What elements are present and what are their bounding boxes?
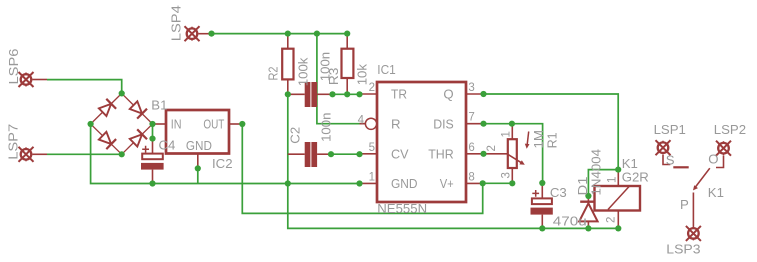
svg-text:2: 2 <box>486 145 498 151</box>
label LSP2 <box>714 122 746 137</box>
pin name GND timer <box>391 176 418 191</box>
junction THR pin <box>480 151 486 157</box>
svg-text:K1: K1 <box>708 185 724 200</box>
svg-text:470u: 470u <box>553 213 587 228</box>
capacitor C2 <box>288 142 331 167</box>
label C3 <box>550 185 567 200</box>
resistor R2 <box>282 34 293 95</box>
svg-text:R3: R3 <box>326 68 341 86</box>
label C2 <box>288 127 303 144</box>
svg-text:7: 7 <box>468 112 474 124</box>
svg-text:DIS: DIS <box>433 116 454 131</box>
svg-text:P: P <box>680 197 689 212</box>
value G2R <box>622 169 649 184</box>
pin name THR <box>428 146 454 161</box>
svg-text:100n: 100n <box>319 113 334 142</box>
wire LSP6 to bridge AC1 <box>47 80 122 94</box>
label LSP7 <box>5 124 20 160</box>
pin number K1-1 <box>606 177 618 183</box>
pin number K1-2 <box>606 217 618 223</box>
relay contact lever K1 <box>693 168 710 190</box>
label R3 <box>326 68 341 86</box>
capacitor C4 <box>141 139 164 184</box>
junction D1 anode <box>585 225 591 231</box>
svg-text:10k: 10k <box>354 64 369 86</box>
junction R2 top <box>285 30 291 36</box>
svg-text:100k: 100k <box>295 57 310 86</box>
pin number 3 <box>468 82 474 94</box>
junction C2 right <box>328 151 334 157</box>
svg-text:R2: R2 <box>266 67 281 81</box>
label K1 coil <box>622 156 638 171</box>
pin number 5 <box>369 142 375 154</box>
pin name V+ <box>440 176 454 191</box>
junction TR pin <box>356 91 362 97</box>
value 1M <box>531 130 546 149</box>
pin number 6 <box>468 142 474 154</box>
pin number R1-3 <box>501 172 513 178</box>
svg-text:6: 6 <box>468 142 474 154</box>
label IC1 <box>377 62 396 77</box>
timer IC1 NE555N <box>360 82 484 202</box>
pin number 8 <box>468 171 474 183</box>
svg-text:LSP4: LSP4 <box>169 5 184 41</box>
pin name P <box>680 197 689 212</box>
label LSP6 <box>6 49 21 85</box>
svg-text:GND: GND <box>391 176 418 191</box>
value 100n C2 <box>319 113 334 142</box>
capacitor C1 <box>288 82 333 107</box>
svg-text:THR: THR <box>428 146 454 161</box>
pin name GND regulator <box>186 138 212 153</box>
junction C1 right <box>329 91 335 97</box>
svg-text:TR: TR <box>391 87 407 102</box>
label IC2 <box>212 156 233 171</box>
svg-text:LSP6: LSP6 <box>6 49 21 85</box>
rectifier B1 diode 3 (left to bottom) <box>98 131 116 149</box>
svg-text:S: S <box>666 152 675 167</box>
pin name CV <box>391 146 409 161</box>
junction DIS pin <box>480 121 486 127</box>
svg-text:2: 2 <box>369 82 375 94</box>
svg-text:2: 2 <box>606 217 618 223</box>
svg-text:IC2: IC2 <box>212 156 233 171</box>
wire DIS to R1 and C3 <box>484 124 543 183</box>
svg-text:1: 1 <box>501 131 513 137</box>
rectifier B1 diode 1 (left to top) <box>98 99 116 117</box>
capacitor C3 <box>531 183 553 228</box>
svg-text:3: 3 <box>501 172 513 178</box>
solder pad LSP6 <box>19 72 48 87</box>
solder pad LSP2 <box>716 141 731 156</box>
value 100k <box>295 57 310 86</box>
value 10k <box>354 64 369 86</box>
diode D1 <box>579 196 597 228</box>
junction R3 top <box>344 30 350 36</box>
svg-text:1N4004: 1N4004 <box>589 149 604 196</box>
junction bridge minus <box>88 121 94 127</box>
wire node N1 vertical R2-C1-C2 to bottom rail <box>288 94 619 228</box>
wire LSP7 to bridge AC2 <box>47 153 122 155</box>
junction GND pin IC1 <box>356 180 362 186</box>
junction R1 top <box>509 121 515 127</box>
junction reset wire top <box>314 30 320 36</box>
svg-text:LSP1: LSP1 <box>654 122 686 137</box>
svg-text:3: 3 <box>468 82 474 94</box>
pin name R <box>391 116 401 131</box>
svg-text:G2R: G2R <box>622 169 649 184</box>
svg-text:R1: R1 <box>544 132 559 148</box>
pin name Q <box>443 87 453 102</box>
svg-text:8: 8 <box>468 171 474 183</box>
junction relay coil top <box>615 167 621 173</box>
label R2 <box>266 67 281 81</box>
svg-text:1: 1 <box>606 177 618 183</box>
label K1 contact <box>708 185 724 200</box>
pin name O <box>708 151 718 166</box>
label C4 <box>159 138 176 153</box>
junction IC2 GND <box>195 165 201 171</box>
svg-text:C3: C3 <box>550 185 567 200</box>
junction IC2 OUT <box>239 121 245 127</box>
wire LSP4 rail to reset pin <box>317 34 366 124</box>
resistor R3 <box>342 34 354 95</box>
solder pad LSP7 <box>19 147 48 162</box>
voltage regulator IC2 <box>153 110 243 168</box>
trimmer R1 <box>484 124 530 184</box>
svg-text:IN: IN <box>171 117 182 132</box>
junction R3 bottom <box>344 91 350 97</box>
wire VCC from IC2 OUT down and to V+ pin <box>242 124 482 213</box>
junction bridge plus <box>149 121 155 127</box>
junction C3 bottom <box>539 225 545 231</box>
junction C4 top <box>149 136 155 142</box>
svg-text:Q: Q <box>443 87 453 102</box>
wire CV line <box>330 153 360 155</box>
value 1N4004 <box>589 149 604 196</box>
label B1 <box>151 97 167 112</box>
svg-text:V+: V+ <box>440 176 454 191</box>
pin name IN <box>171 117 182 132</box>
junction C4 bottom <box>149 180 155 186</box>
svg-text:1: 1 <box>369 171 375 183</box>
label R1 <box>544 132 559 148</box>
label LSP4 <box>169 5 184 41</box>
solder pad LSP1 <box>656 140 671 155</box>
wire IC2 GND to rail <box>197 168 199 183</box>
wire Q output to relay coil <box>484 94 619 170</box>
label LSP3 <box>666 242 700 257</box>
pin name S <box>666 152 675 167</box>
label D1 <box>575 177 590 196</box>
svg-text:5: 5 <box>369 142 375 154</box>
wire VCC2 top rail from LSP4 <box>209 33 347 35</box>
junction V+ pin <box>480 180 486 186</box>
svg-text:C2: C2 <box>288 127 303 144</box>
pin number 7 <box>468 112 474 124</box>
pin number 4 <box>358 115 365 127</box>
pin number 1 <box>369 171 375 183</box>
svg-text:OUT: OUT <box>203 117 224 132</box>
label NE555N <box>377 201 427 216</box>
junction relay coil bottom <box>615 225 621 231</box>
junction TR R2 bottom <box>285 91 291 97</box>
svg-text:B1: B1 <box>151 97 167 112</box>
svg-text:R: R <box>391 116 401 131</box>
rectifier B1 diode 2 (top to right) <box>129 100 147 118</box>
solder pad LSP4 <box>185 26 211 41</box>
junction LSP4 stub <box>208 30 214 36</box>
pin name DIS <box>433 116 454 131</box>
pin number R1-2 <box>486 145 498 151</box>
wire V+ to R1 pin3 <box>483 182 513 184</box>
junction C3 top <box>539 180 545 186</box>
junction CV pin <box>356 151 362 157</box>
svg-text:GND: GND <box>186 138 212 153</box>
junction R1 bottom <box>509 180 515 186</box>
svg-text:LSP2: LSP2 <box>714 122 746 137</box>
junction bridge AC2 <box>119 151 125 157</box>
relay contact pole P to LSP3 <box>692 193 694 227</box>
relay contact terminal O from LSP2 <box>716 156 724 168</box>
junction bridge AC1 <box>119 90 125 96</box>
relay coil K1 <box>595 170 641 229</box>
value 100n C1 <box>318 52 333 81</box>
svg-text:NE555N: NE555N <box>377 201 427 216</box>
wire relay coil to D1 cathode <box>588 170 618 196</box>
svg-text:CV: CV <box>391 146 409 161</box>
wire bridge plus to C4 <box>152 124 154 139</box>
svg-text:C4: C4 <box>159 138 176 153</box>
solder pad LSP3 <box>686 226 701 241</box>
svg-text:LSP7: LSP7 <box>5 124 20 160</box>
rectifier B1 diamond <box>91 93 153 154</box>
pin name TR <box>391 87 407 102</box>
svg-text:O: O <box>708 151 718 166</box>
svg-text:IC1: IC1 <box>377 62 396 77</box>
label LSP1 <box>654 122 686 137</box>
junction GND R2 node cross <box>285 180 291 186</box>
value 470u <box>553 213 587 228</box>
pin name OUT <box>203 117 224 132</box>
wire GND rail <box>91 124 360 184</box>
rectifier B1 diode 4 (bottom to right) <box>129 129 147 147</box>
junction Q pin <box>480 91 486 97</box>
relay contact terminal S from LSP1 <box>663 155 689 167</box>
pin number 2 <box>369 82 375 94</box>
svg-text:4: 4 <box>358 115 365 127</box>
junction D1 cathode <box>585 193 591 199</box>
wire TR line <box>329 93 360 95</box>
svg-text:LSP3: LSP3 <box>666 242 700 257</box>
pin number R1-1 <box>501 131 513 137</box>
